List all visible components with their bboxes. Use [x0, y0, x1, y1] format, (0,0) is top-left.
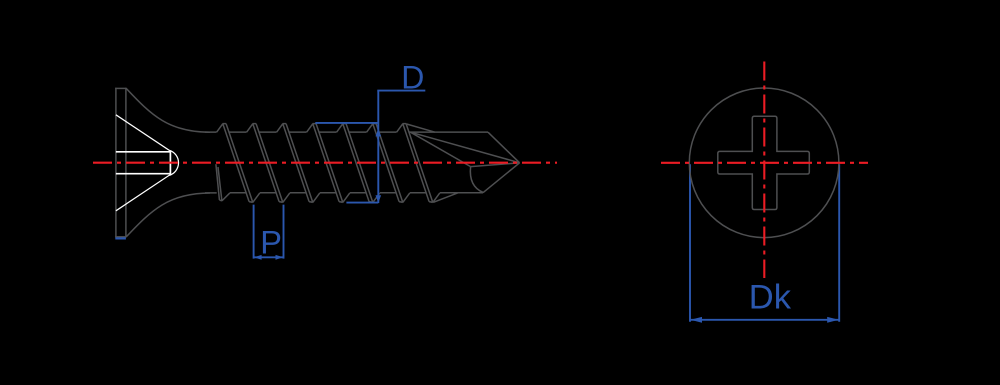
thread 5 — [337, 124, 380, 203]
core bottom line segments — [205, 192, 483, 194]
thread 3 — [277, 124, 320, 203]
centerline right view horizontal — [661, 162, 868, 164]
dimension D box bottom — [346, 202, 378, 204]
bugle curve bottom — [126, 193, 210, 237]
thread 6 — [367, 124, 410, 203]
dimension D box top — [315, 122, 378, 124]
dimension Dk line — [690, 319, 839, 321]
thread 2 — [247, 124, 290, 203]
centerline left view — [93, 162, 557, 164]
thread fade-out bottom — [433, 193, 458, 203]
arrow Dk right — [827, 317, 839, 323]
centerline right view vertical — [763, 62, 765, 279]
screw head face inner edge — [125, 88, 127, 238]
phillips cross recess outline — [718, 116, 810, 209]
thread 1 — [217, 124, 260, 203]
svg-text:P: P — [260, 225, 282, 261]
dimension Dk extension lines — [690, 164, 839, 322]
bugle curve top — [126, 88, 210, 132]
drill point cone bottom — [483, 163, 520, 193]
screw head face outer edge — [115, 88, 117, 238]
thread 7 — [397, 124, 440, 203]
drill point ridge — [411, 132, 520, 163]
svg-text:Dk: Dk — [749, 278, 792, 316]
dimension D leader — [377, 90, 425, 92]
drill point cone top — [488, 132, 520, 163]
dimension P extension lines — [254, 205, 284, 259]
dimension D extension vertical — [377, 91, 379, 203]
head bottom cap — [115, 236, 126, 238]
head top cap — [115, 87, 126, 89]
arrow P left — [254, 255, 262, 260]
thread fade-out top — [406, 124, 435, 132]
arrow P right — [276, 255, 284, 260]
arrow Dk left — [690, 317, 702, 323]
recess cone white outline — [116, 115, 179, 211]
dimension P line — [254, 256, 284, 258]
drill point flute lip — [471, 163, 520, 167]
partial thread at neck — [216, 164, 230, 201]
svg-text:D: D — [401, 59, 424, 95]
head bottom blue mark — [115, 237, 126, 239]
thread 4 — [307, 124, 350, 203]
core top line segments — [205, 131, 488, 133]
arrow D down — [376, 195, 382, 203]
head circle top view — [689, 88, 839, 238]
drill point flute edge — [411, 132, 471, 166]
drill point flute arc — [470, 167, 483, 193]
arrow D up — [376, 129, 382, 137]
recess slot white outline — [116, 152, 170, 174]
